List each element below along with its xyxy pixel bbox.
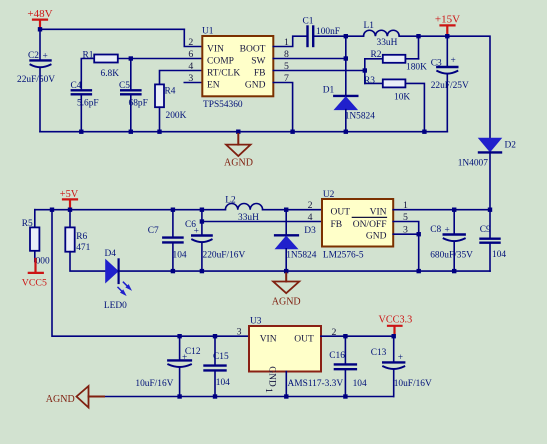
svg-text:+48V: +48V — [27, 8, 52, 20]
node junction SW pin8 — [344, 56, 348, 60]
node junction pin3/pin5 — [417, 232, 421, 236]
svg-text:ON/OFF: ON/OFF — [353, 220, 387, 230]
svg-text:6: 6 — [188, 49, 193, 60]
node junction C7/rail — [171, 208, 175, 212]
svg-text:AGND: AGND — [224, 158, 253, 169]
node junction C6/rail — [200, 208, 204, 212]
node junction C15/row — [213, 334, 217, 338]
wire ground rail section1 — [40, 131, 447, 133]
svg-text:471: 471 — [76, 243, 90, 253]
svg-text:VCC5: VCC5 — [22, 278, 47, 289]
svg-text:GND: GND — [366, 232, 387, 242]
svg-text:U2: U2 — [323, 190, 335, 200]
node junction C5/ground — [129, 130, 133, 134]
svg-text:D2: D2 — [505, 141, 517, 151]
node junction C16/row — [343, 334, 347, 338]
svg-text:+: + — [451, 56, 456, 66]
wire L2 to U2 OUT — [263, 209, 322, 211]
power port VCC5 — [22, 259, 47, 289]
node junction D3 — [284, 208, 288, 212]
svg-text:33uH: 33uH — [377, 38, 398, 48]
svg-text:LED0: LED0 — [104, 301, 127, 311]
svg-text:AGND: AGND — [46, 394, 75, 405]
capacitor C12 — [135, 336, 200, 396]
wire C1 to SW node — [314, 35, 346, 37]
node junction +15V/C3 — [445, 34, 449, 38]
node junction AGND rail — [236, 130, 240, 134]
wire +5V rail left — [35, 209, 226, 211]
svg-text:RT/CLK: RT/CLK — [207, 69, 240, 79]
svg-text:3: 3 — [237, 327, 242, 338]
node junction R1/C5 — [129, 56, 133, 60]
svg-text:U1: U1 — [202, 27, 214, 37]
svg-text:22uF/50V: 22uF/50V — [17, 75, 55, 85]
svg-text:U3: U3 — [250, 316, 262, 326]
svg-text:+: + — [182, 353, 187, 363]
svg-text:1N5824: 1N5824 — [286, 251, 317, 261]
svg-text:C7: C7 — [148, 226, 159, 236]
svg-text:GND: GND — [266, 366, 276, 387]
node junction SW — [344, 34, 348, 38]
op-amp U2 LM2576-5 — [322, 190, 393, 261]
node junction R3/ground — [422, 130, 426, 134]
svg-text:C13: C13 — [371, 348, 387, 358]
node junction C12/row — [177, 334, 181, 338]
svg-text:VCC3.3: VCC3.3 — [379, 315, 413, 326]
wire BOOT pin1 to C1 — [273, 36, 306, 46]
node junction C8/ground — [452, 269, 456, 273]
wire U3 OUT row — [321, 335, 394, 337]
wire SW vertical to D1 — [345, 36, 347, 96]
node junction at C2 top — [38, 27, 42, 31]
svg-text:SW: SW — [251, 57, 265, 67]
node junction C7/ground — [171, 269, 175, 273]
svg-text:+15V: +15V — [435, 14, 460, 26]
wire +48V rail — [40, 28, 184, 30]
svg-text:GND: GND — [245, 81, 266, 91]
capacitor C6 — [185, 210, 245, 271]
wire ground row section3 — [103, 396, 394, 398]
svg-text:+: + — [445, 226, 450, 236]
wire U2 GND pin3 — [393, 233, 419, 235]
svg-text:C16: C16 — [329, 351, 345, 361]
node junction C12/ground — [177, 394, 181, 398]
node junction C6/FB — [200, 219, 204, 223]
wire U3 GND down — [285, 372, 287, 397]
SECTION1-END — [22, 189, 507, 311]
svg-text:VIN: VIN — [207, 45, 224, 55]
node junction D1/ground — [344, 130, 348, 134]
capacitor C9 — [480, 210, 507, 271]
svg-text:1N5824: 1N5824 — [345, 112, 376, 122]
svg-text:TPS54360: TPS54360 — [203, 100, 243, 110]
svg-text:104: 104 — [353, 379, 367, 389]
power port +15V — [435, 14, 460, 37]
svg-text:104: 104 — [216, 378, 230, 388]
svg-text:220uF/16V: 220uF/16V — [203, 251, 246, 261]
svg-text:4: 4 — [188, 61, 193, 72]
svg-text:4: 4 — [308, 212, 313, 223]
svg-text:C8: C8 — [430, 225, 441, 235]
node junction rail/U3 feed — [50, 208, 54, 212]
svg-text:VIN: VIN — [370, 208, 387, 218]
svg-text:2: 2 — [308, 200, 313, 211]
svg-text:22uF/25V: 22uF/25V — [431, 81, 469, 91]
diode D1 1N5824 — [323, 86, 376, 132]
node junction U2gnd/ground — [417, 269, 421, 273]
svg-text:L1: L1 — [364, 21, 375, 31]
node junction C15/ground — [213, 394, 217, 398]
wire SW to L1 to +15V rail — [346, 36, 490, 137]
svg-text:VIN: VIN — [260, 335, 277, 345]
SECTION2-END — [46, 210, 432, 408]
ground AGND section1 — [224, 134, 253, 169]
node junction C16/ground — [343, 394, 347, 398]
svg-text:6.8K: 6.8K — [101, 69, 120, 79]
resistor R4 — [155, 71, 202, 132]
voltage regulator U3 AMS117-3.3 — [249, 316, 343, 389]
inductor L2 — [225, 196, 262, 224]
svg-text:AGND: AGND — [272, 297, 301, 308]
svg-text:104: 104 — [492, 250, 506, 260]
svg-text:D1: D1 — [323, 86, 335, 96]
wire +5V feed down to U3 — [52, 210, 249, 337]
diode D3 1N5824 — [275, 210, 317, 271]
svg-text:R1: R1 — [83, 51, 94, 61]
node junction D2/VIN — [488, 208, 492, 212]
svg-text:R2: R2 — [371, 50, 382, 60]
wire R2 R3 divider — [364, 59, 366, 84]
svg-text:LM2576-5: LM2576-5 — [323, 251, 364, 261]
svg-text:C1: C1 — [303, 17, 314, 27]
power port +48V — [27, 8, 52, 29]
wire U2 VIN row — [393, 209, 490, 211]
svg-text:BOOT: BOOT — [240, 45, 266, 55]
svg-text:+: + — [194, 227, 199, 237]
LED D4 — [104, 249, 131, 311]
node junction FB — [363, 68, 367, 72]
wire rail down to U1 pin2 — [184, 29, 202, 46]
capacitor C16 — [329, 336, 367, 396]
svg-text:680uF/35V: 680uF/35V — [430, 251, 473, 261]
svg-text:100nF: 100nF — [316, 27, 340, 37]
svg-text:OUT: OUT — [294, 335, 314, 345]
svg-text:D4: D4 — [105, 249, 117, 259]
resistor R6 — [65, 210, 105, 271]
diode D2 1N4007 — [458, 138, 517, 209]
op-amp U1 TPS54360 — [202, 27, 273, 111]
svg-text:C9: C9 — [480, 225, 491, 235]
svg-text:D3: D3 — [304, 226, 316, 236]
svg-text:3: 3 — [188, 73, 193, 84]
wire U1 pin3 stub — [184, 82, 202, 84]
svg-text:10uF/16V: 10uF/16V — [135, 379, 173, 389]
node junction C4/ground — [79, 130, 83, 134]
svg-text:1: 1 — [263, 388, 274, 393]
svg-text:R5: R5 — [22, 219, 33, 229]
capacitor C5 — [119, 59, 148, 132]
wire FB row — [202, 221, 322, 223]
capacitor C8 — [430, 210, 473, 271]
ground AGND section2 — [272, 273, 301, 307]
wire SW pin8 — [273, 58, 346, 60]
svg-text:10K: 10K — [394, 93, 410, 103]
svg-text:R3: R3 — [364, 76, 375, 86]
svg-text:104: 104 — [173, 251, 187, 261]
svg-text:OUT: OUT — [331, 208, 351, 218]
capacitor C7 — [148, 210, 187, 271]
capacitor C13 — [371, 336, 432, 396]
node junction U3gnd/ground — [284, 394, 288, 398]
svg-text:AMS117-3.3V: AMS117-3.3V — [288, 379, 344, 389]
svg-text:R6: R6 — [76, 232, 87, 242]
power port +5V — [60, 189, 79, 210]
resistor R1 — [81, 51, 202, 91]
resistor R5 — [22, 210, 50, 267]
svg-text:1N4007: 1N4007 — [458, 159, 489, 169]
node junction C6/ground — [200, 269, 204, 273]
svg-text:2: 2 — [188, 37, 193, 48]
node junction C8/VIN — [452, 208, 456, 212]
svg-text:EN: EN — [207, 81, 220, 91]
capacitor C1 — [303, 17, 340, 47]
power port VCC3.3 — [379, 315, 413, 337]
svg-text:C4: C4 — [71, 81, 82, 91]
svg-text:200K: 200K — [166, 111, 187, 121]
svg-text:+: + — [43, 52, 48, 62]
resistor R2 — [365, 36, 427, 72]
svg-text:C2: C2 — [28, 51, 39, 61]
capacitor C4 — [71, 81, 99, 132]
wire LED to ground row — [119, 270, 490, 272]
svg-text:L2: L2 — [225, 196, 236, 206]
wire U2 ON/OFF to GND — [393, 222, 419, 272]
svg-text:COMP: COMP — [207, 57, 234, 67]
capacitor C15 — [205, 336, 231, 396]
node junction R4/ground — [157, 130, 161, 134]
svg-text:C15: C15 — [213, 352, 229, 362]
svg-text:000: 000 — [36, 257, 50, 267]
wire FB pin5 — [273, 70, 365, 72]
ground AGND section3 arrow — [46, 386, 104, 407]
svg-text:FB: FB — [331, 220, 343, 230]
svg-text:68pF: 68pF — [129, 99, 148, 109]
node junction rail/R6 — [68, 208, 72, 212]
svg-text:FB: FB — [254, 69, 266, 79]
svg-text:C5: C5 — [119, 81, 130, 91]
node junction D3/ground — [284, 269, 288, 273]
node junction L1/R2 — [416, 34, 420, 38]
capacitor C2 — [17, 29, 55, 131]
node junction pin7/ground — [290, 130, 294, 134]
capacitor C3 — [431, 36, 469, 132]
wire GND pin7 down — [273, 83, 292, 132]
resistor R3 — [364, 76, 424, 132]
svg-text:R4: R4 — [165, 87, 176, 97]
svg-text:5.6pF: 5.6pF — [77, 99, 99, 109]
svg-text:+: + — [398, 353, 403, 363]
svg-text:10uF/16V: 10uF/16V — [394, 379, 432, 389]
inductor L1 — [364, 21, 400, 48]
svg-text:180K: 180K — [406, 63, 427, 73]
node junction VCC3.3/C13 — [392, 334, 396, 338]
svg-text:C3: C3 — [431, 59, 442, 69]
